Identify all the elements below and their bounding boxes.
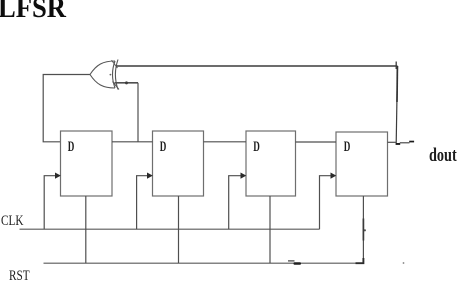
wire: xor bottom input tap xyxy=(115,82,139,84)
flip-flop FF4 xyxy=(336,132,388,196)
arrowhead clk FF1 xyxy=(55,173,61,179)
wire: FF2 Q to FF3 D xyxy=(204,141,247,143)
flip-flop FF2 xyxy=(153,131,204,196)
artifact tick at top right corner xyxy=(395,62,397,70)
wire: FF4 Q output to dout node xyxy=(388,141,397,143)
wire: xor output to FF1 D input xyxy=(43,75,90,142)
reset rail RST xyxy=(44,262,364,264)
flip-flop FF3 xyxy=(246,131,296,196)
svg-text:dout: dout xyxy=(429,144,457,165)
xor gate U1 xyxy=(90,60,119,90)
wire: clk branch to FF1 xyxy=(44,176,55,230)
svg-text:D: D xyxy=(68,138,75,155)
junction dot on xor bottom input xyxy=(125,81,128,84)
wire: clk branch to FF4 xyxy=(320,176,331,230)
svg-text:CLK: CLK xyxy=(1,212,24,229)
title LFSR xyxy=(0,0,66,25)
svg-text:RST: RST xyxy=(9,266,30,283)
artifact tick at dout node xyxy=(396,141,415,145)
svg-text:D: D xyxy=(253,138,260,155)
arrowhead clk FF2 xyxy=(147,173,153,179)
artifact dark corner at RST end xyxy=(356,258,364,263)
wire: FF1 reset drop xyxy=(85,196,87,263)
artifact dot near FF4 drop xyxy=(364,229,366,231)
wire: FF1 Q to FF2 D xyxy=(112,141,153,143)
svg-text:D: D xyxy=(344,138,351,155)
wire: FF2 reset drop xyxy=(178,196,180,263)
clock rail CLK xyxy=(20,228,320,230)
artifact dot inside xor xyxy=(110,74,112,76)
svg-text:D: D xyxy=(160,138,167,155)
wire: clk branch to FF2 xyxy=(137,176,147,230)
artifact squiggle on RST line xyxy=(288,261,301,265)
wire: FF3 Q to FF4 D xyxy=(296,141,337,143)
artifact speck right of RST end xyxy=(403,262,405,264)
flip-flop FF1 xyxy=(61,131,113,196)
arrowhead clk FF4 xyxy=(331,173,337,179)
wire: clk branch to FF3 xyxy=(229,176,241,230)
wire: FF3 reset drop xyxy=(269,196,271,263)
arrowhead clk FF3 xyxy=(241,173,247,179)
wire: feedback top from dout to xor top input xyxy=(117,65,398,67)
artifact darker overdraw on FF4 drop xyxy=(362,219,364,241)
wire: feedback vertical at right xyxy=(396,66,397,143)
wire: FF4 reset drop xyxy=(362,196,364,263)
